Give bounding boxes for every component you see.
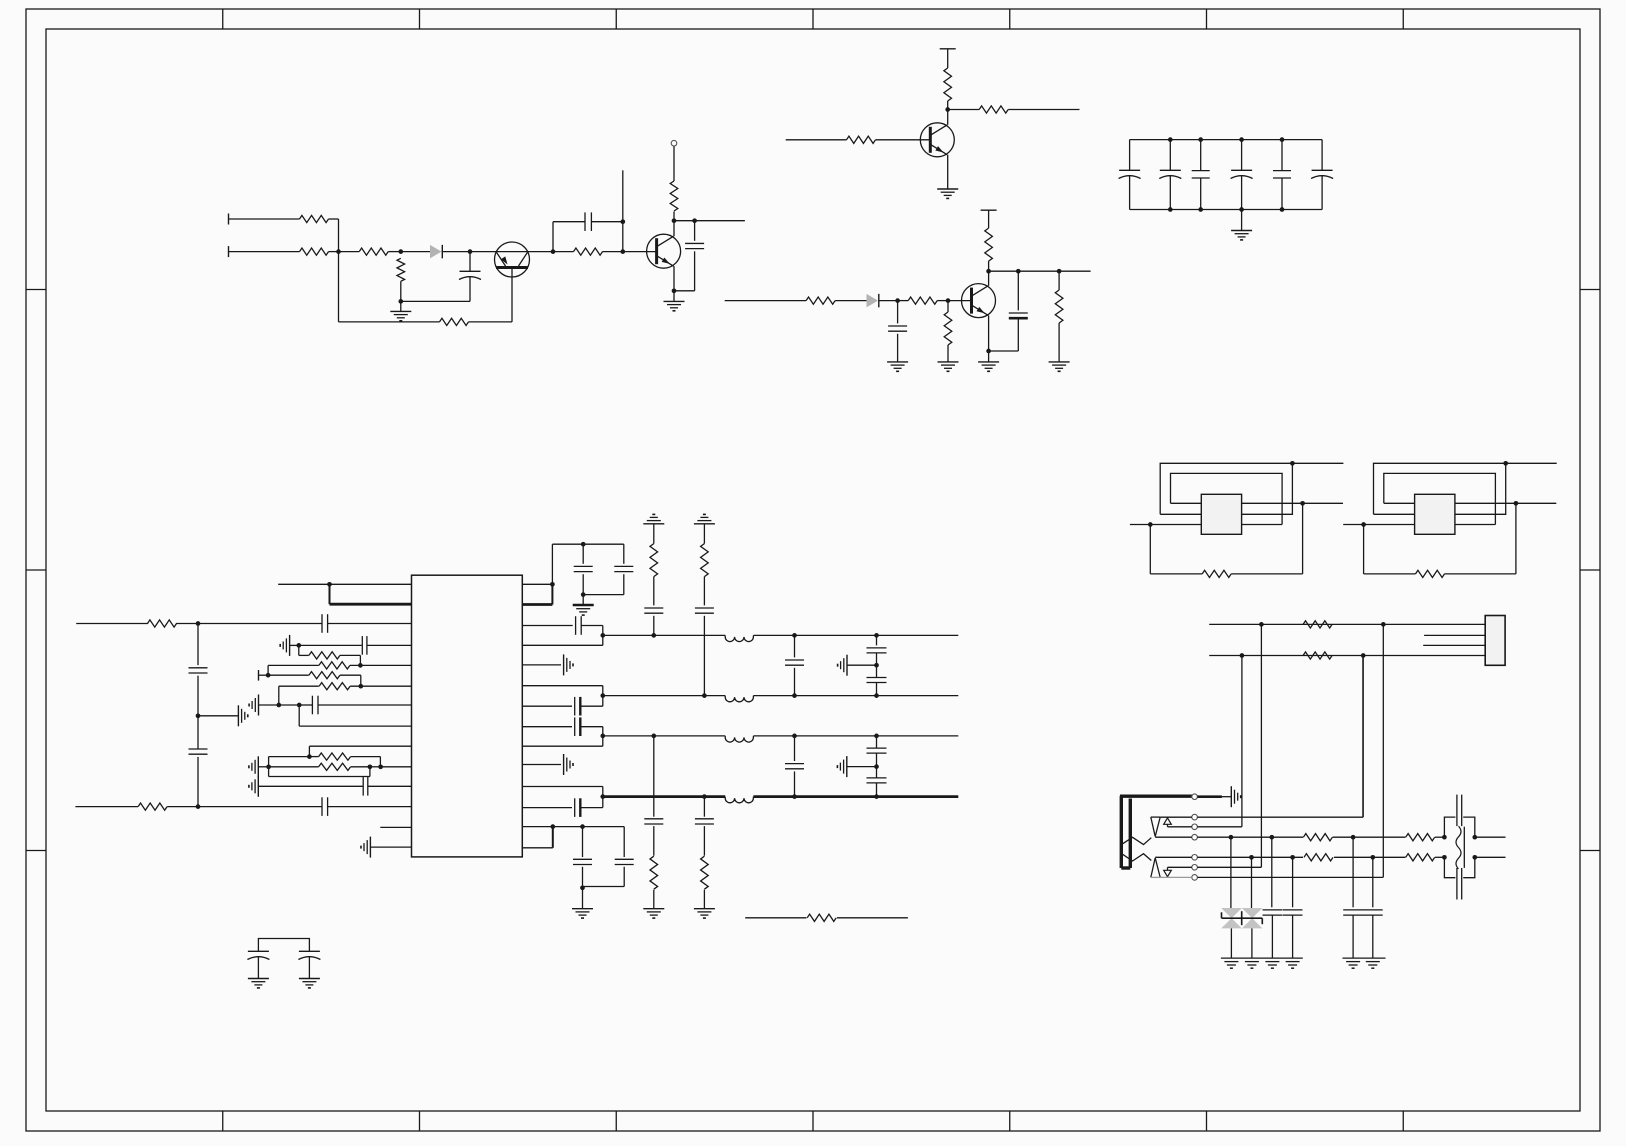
capacitor C4 (888, 301, 907, 362)
bus wire pin R2 (522, 584, 552, 604)
wire colJR1c (1352, 837, 1354, 907)
wire S7 row (1160, 876, 1383, 878)
IC U1 (412, 575, 523, 857)
resistor R14 (985, 213, 993, 271)
wire U1 pin L13 (380, 826, 411, 828)
wire P bridge (258, 939, 309, 952)
wire row R21 (279, 685, 319, 687)
ground H-G2 (249, 776, 258, 797)
jack pin S4 (1192, 834, 1198, 840)
wire H4 to U1 (381, 766, 412, 768)
capacitor C17 (575, 717, 581, 736)
wire colJB2 (1362, 656, 1364, 818)
node mid1 (874, 663, 879, 668)
capacitor C6 (322, 614, 328, 633)
wire U1 pin R8 (522, 726, 572, 728)
node ch4 tap (600, 794, 605, 799)
wire jrow2 out (1475, 856, 1506, 858)
capacitor C23 (785, 635, 804, 695)
transistor Q1 (495, 242, 530, 322)
resistor R10 (847, 136, 876, 143)
wire H1 to R22 (309, 756, 318, 758)
wire U1 pin R13 (522, 826, 624, 828)
jack arrow up (1164, 818, 1172, 827)
connector pin P1 (671, 140, 677, 146)
wire H row C left (269, 756, 310, 758)
wire C input (725, 300, 806, 302)
wire gnd to node H2 (258, 766, 268, 768)
capacitor C12 (363, 777, 368, 796)
wire T2 damp right (1445, 503, 1516, 574)
node Rc (581, 592, 586, 597)
node A3 (398, 299, 403, 304)
wire G7 to C11 (299, 704, 312, 706)
ground mark (1286, 962, 1300, 969)
wire A5 to R6 (553, 251, 574, 253)
terminal IN2 (228, 246, 230, 257)
filter FL winding (1456, 826, 1461, 869)
ground P-G2 (299, 979, 320, 988)
capacitor C29 (867, 736, 887, 778)
resistor R11 (806, 297, 835, 304)
wire U1 gnd stub R5 (522, 664, 561, 666)
wire R17 to F3 (167, 806, 198, 808)
node A9 (692, 218, 697, 223)
ground mark (1245, 962, 1259, 969)
connector J2 stub2 (1423, 644, 1485, 646)
capacitor C1 (459, 252, 481, 302)
ground H-G1 (249, 756, 258, 777)
resistor R24 (650, 544, 658, 577)
wire Ra up (551, 544, 553, 584)
resistor R13 (944, 301, 952, 362)
wire A3 to C1 bottom (401, 300, 470, 302)
wire U1 gnd stub R10 (522, 764, 561, 766)
node ch2 tap (600, 693, 605, 698)
ground C-G3 (978, 362, 999, 371)
ground M-G4 (837, 756, 876, 777)
wire T1 mid out (1303, 502, 1343, 504)
wire C18 to corner (580, 807, 603, 809)
node G4 (266, 673, 271, 678)
wire C12 to U1 (368, 785, 412, 787)
capacitor C2 (585, 212, 591, 231)
node Ra (550, 582, 555, 587)
wire Rd down (552, 827, 554, 848)
ground D-G1 (1231, 210, 1252, 240)
wire D2 to node C1 (879, 300, 898, 302)
ground A-G1 (390, 301, 411, 320)
wire T2 damp left (1364, 525, 1416, 574)
ground R-G4 (572, 888, 593, 918)
node C3 (986, 269, 991, 274)
wire U1 pin R1 (522, 583, 552, 585)
resistor R3 (359, 248, 388, 255)
cap bank bottom rail (1130, 209, 1323, 211)
node G5 (358, 684, 363, 689)
node ch4-b (792, 794, 797, 799)
wire A1 to R3 (339, 251, 360, 253)
capacitor C34 (1283, 910, 1303, 958)
ground A-G2 (664, 301, 685, 310)
resistor R33 (1406, 834, 1435, 841)
wire A6 down to node A7 (622, 222, 624, 252)
wire A7 to Q2 base (623, 251, 657, 253)
capacitor C30 (867, 778, 887, 797)
resistor R23 (319, 763, 351, 770)
node JA2 (1381, 622, 1386, 627)
wire U1 pin R6 (522, 686, 603, 707)
node ch2-b (792, 693, 797, 698)
wire IN1 to R1 (229, 218, 300, 220)
resistor R31 (1303, 834, 1332, 841)
terminal stub G3 (258, 670, 260, 681)
node JR2a (1249, 855, 1254, 860)
terminal IN1 (228, 214, 230, 225)
node F1 (196, 621, 201, 626)
transformer T2 inner winding (1384, 473, 1496, 524)
node ch2-c (874, 693, 879, 698)
filter FL core (1463, 827, 1465, 868)
ground chain up Ga (643, 514, 664, 523)
filter FL1 top loop (1444, 817, 1474, 837)
wire U1 pin R11 (522, 787, 603, 808)
wire C16 to corner (580, 705, 603, 707)
node A2 (398, 249, 403, 254)
node ch1-c (874, 633, 879, 638)
wire jrow1 to filter (1435, 836, 1445, 838)
capacitor C3 (674, 221, 704, 291)
node G1 (296, 643, 301, 648)
node T1-in (1148, 522, 1153, 527)
ground R-G1 (573, 595, 594, 616)
resistor R5 (440, 318, 469, 325)
wire R9 right stub (1008, 109, 1079, 111)
wire F2 down (197, 716, 199, 749)
wire R4 to node A3 (400, 281, 402, 301)
node A8 (672, 218, 677, 223)
node ch1 tap (600, 633, 605, 638)
node JR2b (1290, 855, 1295, 860)
capacitor CB3 (1192, 140, 1210, 210)
ground C-G4 (1049, 362, 1070, 371)
node T1-top (1290, 461, 1295, 466)
node ch2-a (702, 693, 707, 698)
wire R10 to Q4 (876, 139, 931, 141)
node JR1a (1229, 835, 1234, 840)
capacitor CB6 (1311, 140, 1333, 210)
capacitor C10 (362, 636, 367, 655)
ground M-G3 (694, 909, 715, 918)
node ch3-b (792, 734, 797, 739)
ground mark (1366, 962, 1380, 969)
wire F1 to C6 (198, 623, 322, 625)
node C5n (986, 349, 991, 354)
ground rail J-G3 (1343, 957, 1386, 959)
node C2 (946, 298, 951, 303)
wire T2 top out (1506, 462, 1557, 464)
bus wire pin L2 (330, 603, 412, 606)
wire U1 pin R12 (522, 807, 572, 809)
ground mark (1224, 962, 1238, 969)
wire R19 to U1 (350, 664, 412, 666)
wire ch2 row (603, 695, 958, 697)
capacitor C8 (189, 749, 208, 754)
wire T2 mid out (1516, 502, 1556, 504)
ground B-G1 (937, 189, 958, 198)
wire A5 up to C2 (553, 222, 585, 252)
wire G6 to node G7 (279, 704, 299, 706)
diode D2 (867, 294, 879, 308)
junction (1239, 137, 1244, 212)
wire F2 to ground (198, 715, 238, 717)
jack tip contact (1151, 817, 1160, 836)
node ch4-c (874, 794, 879, 799)
connector J2 stub1 (1424, 634, 1485, 636)
ground C-G2 (938, 362, 959, 371)
wire R25 to C22 (703, 577, 705, 606)
node G7 (297, 703, 302, 708)
wire A4 to Q1 area (470, 251, 553, 253)
capacitor C5 (989, 271, 1028, 351)
wire U1 pin R7 (522, 705, 572, 707)
wire C8 down to node F3 (197, 757, 199, 807)
wire H corner (308, 746, 310, 756)
wire IN2 to R2 (229, 251, 300, 253)
wire A8 right (674, 220, 745, 222)
wire C3 right (989, 270, 1091, 272)
capacitor C16 (575, 697, 581, 716)
wire R27 gnd (703, 890, 705, 909)
transistor Q3 (962, 284, 996, 318)
transformer T2 body (1415, 494, 1455, 534)
node H4 (378, 764, 383, 769)
wire gnd to C12 (258, 785, 362, 787)
node C6n (1057, 269, 1062, 274)
resistor R8 (944, 68, 952, 101)
wire Q4 emitter down (947, 155, 949, 189)
wire A1 down to bottom rail (339, 252, 440, 322)
wire T1 damp left (1150, 525, 1202, 574)
wire S4 row jrow1 (1155, 836, 1303, 838)
node JB1 (1240, 653, 1245, 658)
wire jrow2 to filter (1435, 856, 1445, 858)
resistor T1-R (1202, 570, 1231, 577)
wire Q2 emitter down (673, 266, 675, 301)
wire S5 row jrow2 (1155, 856, 1303, 858)
resistor R15 (1055, 271, 1063, 362)
resistor R29 (1303, 621, 1332, 628)
node T2-in (1361, 522, 1366, 527)
jack ring contact (1151, 858, 1160, 878)
node A6 (620, 219, 625, 224)
wire R18 to node G2 (340, 655, 361, 665)
node G6 (276, 703, 281, 708)
capacitor C33 (1263, 910, 1283, 958)
node C4n (1016, 269, 1021, 274)
wire colJR1b (1271, 837, 1273, 907)
wire C17 corner (580, 727, 603, 747)
wire Q4 base (786, 139, 847, 141)
ground mark (1346, 962, 1360, 969)
transformer T1 inner winding (1171, 473, 1283, 524)
wire colJB1 (1241, 656, 1243, 827)
jack J1 frame (1120, 796, 1194, 868)
node Re (580, 824, 585, 829)
wire gnd to node G1 (290, 644, 299, 646)
inductor FB2 (725, 696, 753, 702)
wire R3 to node A2 (388, 251, 401, 253)
wire U1 pin R3 (522, 625, 572, 627)
wire C2 to Q3 base (948, 300, 972, 302)
jack pin S2 (1192, 814, 1198, 820)
wire jrow2 mid (1334, 856, 1406, 858)
wire Q2 collector up (673, 212, 675, 237)
wire U1 pin L1 (278, 583, 411, 585)
capacitor CB5 (1273, 140, 1291, 210)
resistor R6 (574, 248, 603, 255)
jack pin S7 (1192, 875, 1198, 881)
wire R26 gnd (653, 890, 655, 909)
diode D1 (430, 245, 442, 259)
resistor R1 (300, 215, 329, 222)
wire C11 to U1 (318, 704, 412, 706)
cap bank top rail (1130, 139, 1323, 141)
capacitor CB2 (1159, 140, 1181, 210)
wire U1 pin R9 (522, 745, 603, 747)
wire R12 to node C2 (937, 300, 948, 302)
node ch1-a (651, 633, 656, 638)
wire L1a down (329, 584, 331, 604)
capacitor C22 (695, 608, 714, 613)
capacitor C37 (1457, 795, 1462, 827)
wire colJR1a (1230, 837, 1232, 908)
wire jrowA (1209, 623, 1485, 625)
capacitor C31 (247, 951, 269, 978)
node FL1b (1472, 835, 1477, 840)
power stub T2 (981, 210, 997, 213)
resistor R25 (701, 544, 709, 577)
jack lever 2 (1121, 853, 1151, 861)
wire row R19 (268, 664, 319, 666)
resistor R19 (319, 662, 350, 669)
capacitor CB4 (1231, 140, 1253, 210)
capacitor C35 (1343, 910, 1363, 958)
junction (1280, 137, 1285, 212)
wire jrow1 out (1475, 836, 1506, 838)
wire ch1 row (603, 634, 959, 636)
wire B1 to Q4 collector (947, 110, 949, 125)
capacitor C28 (785, 736, 804, 797)
node Rd (550, 824, 555, 829)
wire S2 row (1160, 656, 1363, 818)
wire D1 to node A4 (442, 251, 470, 253)
wire C6 to U1 (328, 623, 412, 625)
node A5 (551, 249, 556, 254)
jack arrow down (1164, 867, 1172, 876)
wire R2 to node A1 (329, 251, 339, 253)
transformer T2 outer winding (1374, 463, 1506, 514)
ground R-G3 (564, 754, 573, 775)
resistor R20 (309, 672, 340, 679)
node ch3-c (874, 734, 879, 739)
wire jrowB (1209, 655, 1485, 657)
node H1 (307, 754, 312, 759)
node JR2c (1370, 855, 1375, 860)
wire T1 damp right (1231, 503, 1302, 574)
wire N1 row (745, 917, 908, 919)
wire R11 to D2 (835, 300, 866, 302)
wire G2 corner down (267, 665, 269, 675)
node T1-mid (1300, 501, 1305, 506)
connector J2 body (1485, 616, 1505, 666)
wire G1 down to R18 (299, 645, 309, 655)
wire S1 to gnd (1197, 795, 1231, 798)
node A10 (672, 288, 677, 293)
wire S3 row (1168, 826, 1242, 828)
junction (1198, 137, 1203, 212)
capacitor C26 (644, 736, 663, 856)
capacitor CB1 (1119, 140, 1141, 210)
capacitor C7 (189, 668, 208, 673)
wire colJR2b (1292, 857, 1294, 907)
wire C10 to U1 (367, 644, 412, 646)
node ch3 tap (600, 734, 605, 739)
wire Ga stem (653, 524, 655, 544)
ground G-G1 (280, 635, 289, 656)
wire A6 stub up (622, 170, 624, 221)
node ch3-a (651, 734, 656, 739)
wire R23 to node H3 (351, 766, 370, 768)
node F3 (196, 804, 201, 809)
ground M-G2 (643, 909, 664, 918)
wire Q3 emitter down (988, 316, 990, 362)
wire C2 to node A6 (591, 221, 622, 223)
wire colJR2a (1251, 857, 1253, 908)
wire G7 down (299, 705, 411, 726)
wire colJR2c (1372, 857, 1374, 907)
capacitor C11 (312, 696, 318, 715)
resistor R2 (300, 248, 329, 255)
transistor Q4 (920, 123, 954, 157)
transformer T1 body (1201, 494, 1241, 534)
transformer T1 outer winding (1160, 463, 1292, 514)
wire S7 base (1151, 876, 1160, 878)
wire R1 to corner (329, 219, 339, 252)
node Rb (581, 542, 586, 547)
ground F-G1 (238, 705, 247, 726)
wire gnd2 to node G6 (259, 704, 279, 706)
wire R6 to node A7 (603, 251, 623, 253)
wire G4 to R20 (268, 674, 309, 676)
ground P-G1 (248, 979, 269, 988)
resistor T2-R (1416, 570, 1445, 577)
resistor R27 (701, 856, 709, 889)
wire F3 to C9 (198, 806, 322, 808)
ground L-G3 (361, 837, 370, 858)
ground chain up Gb (694, 514, 715, 523)
wire R21 to U1 (350, 685, 411, 687)
jack pin S1 (1192, 794, 1198, 800)
resistor R34 (1406, 854, 1435, 861)
wire C7 down to node F2 (197, 676, 199, 716)
wire R5 to Q1 base (469, 321, 513, 323)
node B1 (945, 107, 950, 112)
node T2-top (1503, 461, 1508, 466)
wire stub to node G4 (259, 674, 269, 676)
wire colJA2 (1382, 624, 1384, 877)
node A1 (336, 249, 341, 254)
